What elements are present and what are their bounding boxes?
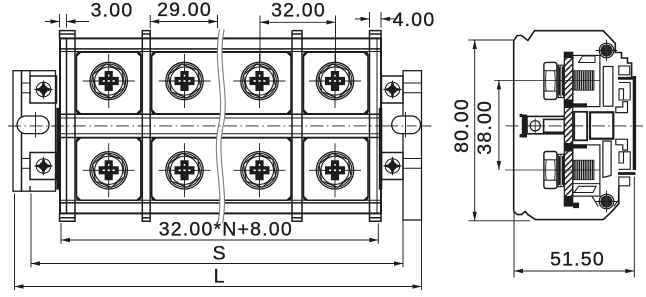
dim 29.00 line (150, 21, 217, 23)
divider strip 2 (141, 38, 143, 213)
DIN rail bottom flange bar (618, 172, 636, 175)
side bottom pocket (573, 145, 600, 196)
cell corner chamfers (77, 52, 369, 200)
right clamp pocket 2 (590, 112, 613, 138)
rail bottom small rect (619, 177, 630, 186)
bottom screw thread (573, 160, 594, 180)
body top rail lines (60, 48, 381, 50)
dim 32.00 line (260, 21, 336, 23)
clamp hatch plate (564, 52, 572, 206)
dim 80.00 arrows (473, 40, 477, 49)
svg-text:32.00: 32.00 (271, 0, 326, 22)
terminal cell r1c3 (219, 52, 291, 114)
terminal block body outline (60, 38, 381, 213)
terminal screw 8 (309, 143, 361, 197)
side top centerline (494, 79, 600, 81)
right bracket gap bar (379, 108, 383, 190)
dim 4.00 leader lines (355, 18, 370, 20)
terminal screw 6 (159, 143, 211, 197)
dim L line (15, 286, 422, 288)
washer black band top (559, 67, 564, 96)
left bracket screw bottom (34, 156, 54, 176)
svg-text:S: S (213, 243, 227, 265)
side bottom washers (558, 154, 564, 186)
terminal screw 1 (83, 54, 135, 108)
terminal cell r1c4 (304, 52, 369, 114)
side view outer outline (514, 31, 632, 212)
left bracket screw top (34, 80, 54, 100)
right end plate (369, 38, 371, 213)
terminal cell r2c4 (304, 138, 369, 200)
terminal cell r2c1 (77, 138, 141, 200)
side top hex bolt (544, 62, 564, 99)
washer black band bottom (559, 156, 564, 185)
terminal cell r2c2 (152, 138, 219, 200)
DIN rail web (633, 76, 636, 170)
rail middle hook bottom (616, 139, 628, 150)
svg-text:3.00: 3.00 (91, 0, 134, 22)
dim 32.00 arrows (260, 20, 269, 24)
dim 38.00 line (498, 80, 500, 170)
top screw thread (573, 71, 594, 91)
svg-text:80.00: 80.00 (451, 98, 473, 153)
right bracket screw bottom (383, 156, 403, 176)
left mounting bracket flange (13, 71, 57, 192)
right bracket column (403, 71, 422, 220)
dim 4.00 extension lines (369, 12, 371, 28)
right bracket screw box top (382, 76, 404, 103)
middle outer sleeve (527, 116, 564, 133)
DIN rail top flange bar (618, 77, 636, 80)
dim 32N8 arrows (61, 238, 70, 242)
terminal screw 3 (234, 54, 286, 108)
right clamp pocket 1 (574, 112, 587, 141)
side top pocket (573, 55, 600, 106)
dim 3.00 extension lines (59, 14, 61, 28)
dim 3.00 arrows (51, 19, 60, 23)
break line left (216, 30, 220, 223)
right wall bar lower (603, 141, 611, 178)
rail top small rect (619, 66, 630, 75)
dim S arrows (31, 261, 40, 265)
break line right (221, 30, 225, 223)
svg-text:38.00: 38.00 (474, 100, 496, 155)
divider strip 3 (291, 38, 293, 213)
side top knurled screw (596, 40, 618, 62)
dim 38.00 arrows (497, 80, 501, 89)
right bracket screw top (383, 80, 403, 100)
side middle centerline (506, 125, 644, 127)
middle T bolt head (522, 115, 527, 138)
svg-text:4.00: 4.00 (393, 9, 436, 31)
svg-text:51.50: 51.50 (550, 249, 605, 271)
dim 80.00 line (474, 40, 476, 221)
side bottom hex bolt (544, 152, 564, 189)
svg-text:L: L (214, 266, 226, 288)
bottom lever bar (574, 186, 596, 192)
break band blank (216, 30, 225, 223)
centerline over left oval (8, 125, 62, 127)
left bracket screw box top (30, 76, 57, 103)
side bottom centerline (505, 169, 600, 171)
left oval slot (17, 116, 49, 134)
dim 29.00 arrows (150, 19, 159, 23)
left end plate (66, 38, 68, 213)
rail bottom inner hook (619, 152, 630, 170)
body middle rail lines (60, 113, 381, 115)
left bracket screw box bottom (30, 153, 57, 180)
terminal screw 4 (309, 54, 361, 108)
terminal cell r2c3 (219, 138, 291, 200)
body bottom rail lines (60, 199, 381, 201)
left bracket column (22, 71, 56, 192)
right oval slot (392, 116, 421, 134)
right mounting bracket (382, 71, 422, 220)
left end plate tabs (60, 31, 76, 39)
right bracket screw box bottom (382, 153, 404, 180)
main horizontal centerline (8, 125, 432, 127)
dim 3.00 leader lines (45, 21, 60, 23)
rail middle hook top (616, 102, 628, 113)
right wall bar (603, 67, 613, 107)
svg-text:32.00*N+8.00: 32.00*N+8.00 (159, 219, 293, 241)
middle inner sleeve (544, 119, 565, 132)
side top washers (558, 65, 564, 97)
svg-text:29.00: 29.00 (157, 0, 212, 21)
terminal screw 5 (83, 143, 135, 197)
dim 51.50 line (514, 270, 634, 272)
dim S line (31, 263, 403, 265)
middle pin crosshair (528, 125, 543, 127)
middle pin circle (530, 121, 540, 131)
dim 4.00 arrows (361, 17, 370, 21)
terminal cell r1c2 (152, 52, 219, 114)
screw cradle lines (592, 194, 619, 207)
dim L arrows (15, 284, 24, 288)
dim 51.50 arrows (514, 269, 523, 273)
terminal cell r1c1 (77, 52, 369, 200)
left bracket gap bar (56, 108, 60, 190)
centerline over right oval (388, 125, 432, 127)
rail top inner hook (619, 83, 630, 101)
terminal screw 7 (234, 143, 286, 197)
dim 32N8 line (61, 239, 378, 241)
side bottom knurled screw (596, 191, 618, 213)
terminal screw 2 (159, 54, 211, 108)
